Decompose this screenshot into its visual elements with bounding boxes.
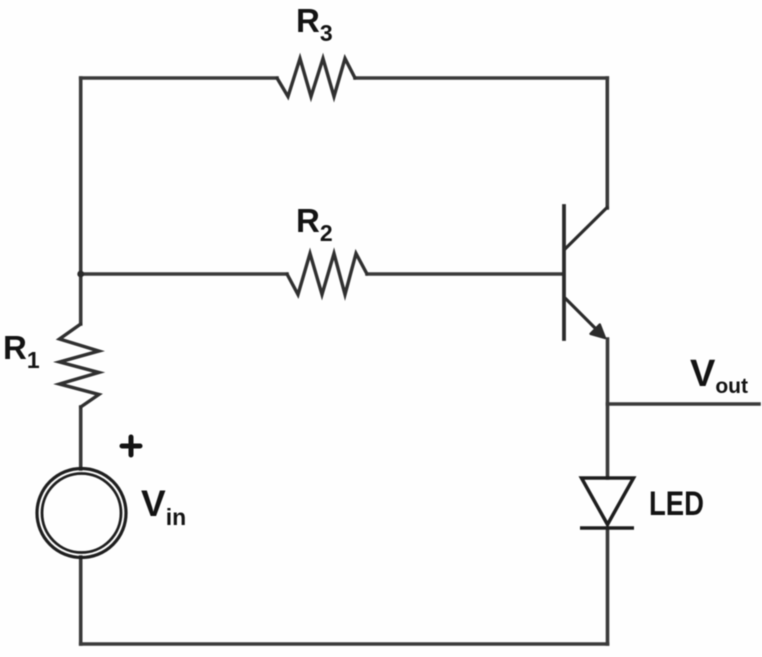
plus sign [122,437,140,455]
wire top-right horizontal (R3 right to collector corner) [355,76,607,80]
voltage source Vin [37,469,126,558]
resistor R3 [277,59,355,97]
wire emitter vertical (arrow to LED anode) [606,339,610,478]
wire collector vertical (top corner down) [605,78,609,208]
junction dot at base row [77,271,84,278]
wire top-left horizontal (top rail to R3 left) [81,76,277,80]
wire base row left (junction to R2 left) [81,272,287,276]
wire bottom rail [81,642,608,646]
wire Vout horizontal [608,402,760,406]
LED D1 [580,478,634,528]
resistor R2 [287,254,367,295]
wire R1 bottom to source top [79,407,83,469]
resistor R1 [60,324,99,407]
wire source bottom to bottom rail [79,557,83,644]
wire LED cathode to bottom rail [606,528,610,644]
wire left vertical (top corner through R2 junction to R1 top) [79,78,83,324]
transistor Q1 [564,206,607,339]
wire base row right (R2 right to transistor base) [367,272,563,276]
svg-text:LED: LED [649,485,704,523]
